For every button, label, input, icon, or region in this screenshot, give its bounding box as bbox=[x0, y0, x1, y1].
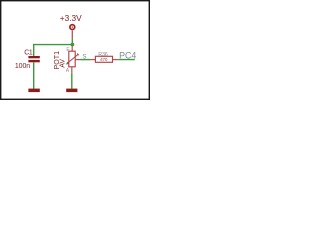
wire wiper to resistor bbox=[80, 59, 90, 61]
wire pot to ground bbox=[71, 73, 73, 89]
svg-text:C1: C1 bbox=[24, 49, 33, 56]
svg-text:+3.3V: +3.3V bbox=[60, 13, 82, 23]
junction dot bbox=[71, 43, 75, 47]
svg-text:100n: 100n bbox=[15, 63, 30, 70]
ground symbol right bbox=[66, 89, 77, 93]
capacitor C1 plates bbox=[28, 56, 39, 62]
resistor left pin bbox=[90, 59, 95, 61]
resistor R36 body bbox=[95, 56, 112, 62]
supply symbol circle bbox=[70, 25, 75, 30]
supply pin bbox=[71, 31, 73, 39]
potentiometer wiper pin bbox=[75, 59, 80, 61]
potentiometer bottom pin bbox=[71, 67, 73, 73]
potentiometer top pin bbox=[71, 45, 73, 51]
svg-text:PC4: PC4 bbox=[119, 51, 136, 61]
svg-text:AV: AV bbox=[59, 59, 66, 68]
wire supply to junction bbox=[71, 39, 73, 45]
wire resistor to net end bbox=[118, 59, 135, 61]
wire capacitor to ground bbox=[33, 62, 35, 88]
potentiometer wiper diagonal arrow bbox=[66, 54, 79, 65]
svg-text:470: 470 bbox=[100, 57, 108, 62]
resistor right pin bbox=[113, 59, 119, 61]
frame border bbox=[1, 1, 150, 100]
wire junction to capacitor bbox=[34, 45, 73, 57]
background bbox=[0, 0, 150, 100]
potentiometer body POT1 bbox=[69, 51, 75, 67]
ground symbol left bbox=[28, 89, 39, 93]
